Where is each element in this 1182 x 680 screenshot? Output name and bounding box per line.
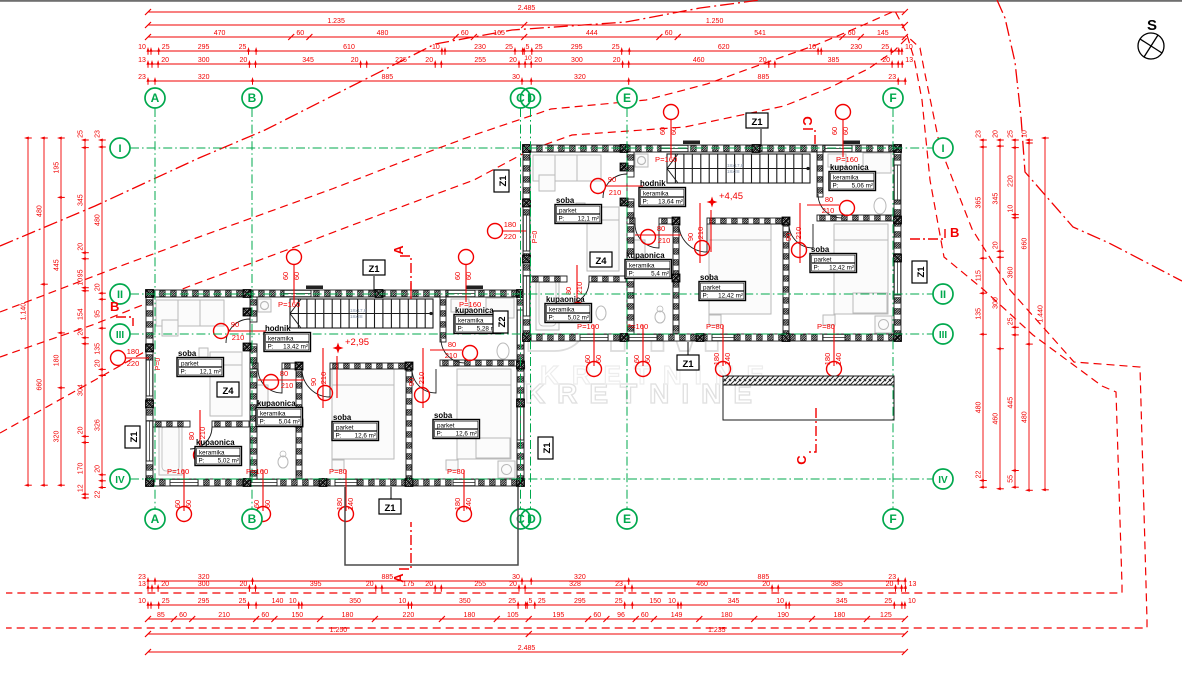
svg-text:Z1: Z1 [916,266,927,278]
svg-text:B: B [248,512,257,526]
svg-text:+4,45: +4,45 [719,191,743,202]
svg-text:95: 95 [78,269,85,277]
svg-text:P:: P: [549,315,555,322]
svg-text:10: 10 [432,44,440,51]
svg-text:5: 5 [525,44,529,51]
lower wing: stairs [290,299,433,328]
svg-text:10: 10 [668,598,676,605]
svg-text:300: 300 [198,57,210,64]
property dash-dot line right [997,0,1182,281]
svg-text:20: 20 [161,581,169,588]
svg-text:90: 90 [686,233,695,241]
svg-text:B: B [110,299,119,314]
upper wing: columns [523,145,531,153]
svg-text:255: 255 [474,581,486,588]
upper wing: door arcs [603,174,627,198]
svg-text:395: 395 [310,581,322,588]
svg-text:5,4 m²: 5,4 m² [651,271,669,278]
svg-text:18x17,8: 18x17,8 [727,163,744,168]
svg-text:145: 145 [877,30,889,37]
svg-text:140: 140 [834,353,843,366]
svg-text:80: 80 [187,432,196,440]
svg-text:885: 885 [758,574,770,581]
svg-text:210: 210 [609,188,622,197]
svg-text:2.485: 2.485 [518,5,536,12]
svg-text:Z1: Z1 [542,442,553,454]
svg-text:105: 105 [507,612,519,619]
svg-text:13: 13 [909,581,917,588]
svg-text:295: 295 [571,44,583,51]
svg-text:460: 460 [696,581,708,588]
svg-text:20: 20 [886,581,894,588]
svg-text:230: 230 [474,44,486,51]
svg-text:460: 460 [693,57,705,64]
svg-text:P=80: P=80 [447,467,465,476]
Z4 label lower wing [217,382,239,397]
svg-text:320: 320 [574,574,586,581]
svg-text:140: 140 [272,598,284,605]
svg-text:12: 12 [78,484,85,492]
top dimension chains [145,5,908,15]
svg-text:135: 135 [976,308,983,320]
Z2 label junction rotated [493,311,508,333]
svg-text:385: 385 [831,581,843,588]
svg-text:25: 25 [538,598,546,605]
svg-text:300: 300 [198,581,210,588]
svg-text:220: 220 [504,232,517,241]
svg-text:300: 300 [571,57,583,64]
svg-text:parket: parket [814,256,832,263]
svg-text:480: 480 [37,205,44,217]
svg-text:soba: soba [556,196,575,205]
svg-text:P:: P: [833,183,839,190]
svg-text:25: 25 [78,130,85,138]
svg-text:P=160: P=160 [655,155,677,164]
svg-text:30: 30 [512,574,520,581]
svg-text:445: 445 [1008,397,1015,409]
svg-text:328: 328 [569,581,581,588]
svg-text:II: II [940,289,946,301]
grid bubbles bottom [145,509,165,529]
svg-text:P:: P: [703,293,709,300]
svg-text:10: 10 [1008,205,1015,213]
svg-text:320: 320 [54,431,61,443]
svg-text:885: 885 [758,74,770,81]
svg-text:13: 13 [138,581,146,588]
svg-text:25: 25 [615,598,623,605]
svg-text:25: 25 [239,44,247,51]
svg-text:345: 345 [836,598,848,605]
svg-text:kupaonica: kupaonica [830,163,869,172]
svg-text:150: 150 [291,612,303,619]
svg-text:20: 20 [509,57,517,64]
svg-text:60: 60 [263,500,272,508]
svg-text:480: 480 [377,30,389,37]
svg-text:210: 210 [658,236,671,245]
svg-text:25: 25 [239,598,247,605]
svg-text:P:: P: [268,344,274,351]
svg-text:60: 60 [296,30,304,37]
svg-text:P:: P: [814,265,820,272]
watermark [522,266,738,372]
svg-text:610: 610 [343,44,355,51]
svg-text:295: 295 [198,44,210,51]
svg-text:13,42 m²: 13,42 m² [283,344,308,351]
svg-text:12,1 m²: 12,1 m² [578,216,599,223]
svg-text:5: 5 [529,598,533,605]
svg-text:20: 20 [613,57,621,64]
svg-text:1.140: 1.140 [21,303,28,321]
svg-text:Z2: Z2 [497,316,508,327]
svg-text:parket: parket [437,422,455,429]
svg-text:1.250: 1.250 [330,627,348,634]
svg-text:P=160: P=160 [626,322,648,331]
svg-text:80: 80 [825,195,833,204]
Z1 label lower wing top [363,260,385,275]
upper wing: furniture [533,155,601,181]
upper wing: windows [661,145,688,152]
svg-text:96: 96 [617,612,625,619]
svg-text:195: 195 [54,162,61,174]
svg-text:10: 10 [905,44,913,51]
svg-text:A: A [391,573,406,583]
svg-text:5,02 m²: 5,02 m² [568,315,589,322]
svg-text:P:: P: [437,431,443,438]
svg-text:190: 190 [777,612,789,619]
svg-text:326: 326 [95,419,102,431]
svg-text:25: 25 [612,44,620,51]
svg-text:60: 60 [583,355,592,363]
lower wing [111,250,525,522]
svg-text:210: 210 [281,381,294,390]
svg-text:25: 25 [162,598,170,605]
room labels upper wing [555,196,602,224]
svg-text:10: 10 [138,44,146,51]
svg-text:parket: parket [181,360,199,367]
svg-text:210: 210 [822,206,835,215]
svg-text:10: 10 [908,598,916,605]
svg-text:parket: parket [559,207,577,214]
svg-text:10: 10 [138,598,146,605]
svg-text:18x17,8: 18x17,8 [350,308,367,313]
svg-text:180: 180 [504,220,517,229]
svg-text:60: 60 [593,612,601,619]
svg-text:60: 60 [632,355,641,363]
lower wing: windows [284,290,311,297]
svg-text:parket: parket [703,284,721,291]
upper wing [488,105,902,377]
svg-text:20: 20 [240,581,248,588]
svg-text:165: 165 [493,30,505,37]
svg-text:10: 10 [78,278,85,286]
svg-text:20: 20 [95,465,102,473]
upper wing: red door/window annotations [591,179,606,194]
svg-text:444: 444 [586,30,598,37]
svg-text:keramika: keramika [458,317,484,324]
lower wing: lintels [306,286,323,290]
svg-text:III: III [939,330,948,341]
svg-text:180: 180 [712,353,721,366]
svg-text:125: 125 [880,612,892,619]
grid bubbles right [933,138,953,158]
svg-text:keramika: keramika [260,410,286,417]
canopy outline below junction [345,487,518,565]
svg-text:60: 60 [848,30,856,37]
svg-text:C: C [800,116,815,126]
svg-text:I: I [941,143,944,155]
svg-text:F: F [889,91,896,105]
svg-text:20: 20 [95,283,102,291]
svg-text:210: 210 [575,282,584,295]
svg-text:soba: soba [700,273,719,282]
svg-text:E: E [623,512,631,526]
svg-text:20: 20 [95,359,102,367]
svg-text:25: 25 [1008,317,1015,325]
svg-text:P=0: P=0 [155,358,162,371]
svg-text:A: A [391,245,406,255]
svg-text:kupaonica: kupaonica [196,438,235,447]
svg-text:345: 345 [728,598,740,605]
svg-text:220: 220 [127,359,140,368]
svg-text:115: 115 [976,270,983,281]
svg-text:Z1: Z1 [498,175,509,187]
svg-text:P=160: P=160 [577,322,599,331]
lower wing: interior walls [250,297,257,322]
svg-text:480: 480 [95,214,102,226]
svg-text:keramika: keramika [629,262,655,269]
svg-text:60: 60 [179,612,187,619]
terrain dashed line T3 [0,351,146,433]
svg-text:320: 320 [198,74,210,81]
svg-text:kupaonica: kupaonica [455,306,494,315]
svg-text:25: 25 [535,44,543,51]
svg-text:140: 140 [346,498,355,511]
svg-text:parket: parket [336,424,354,431]
svg-text:5,02 m²: 5,02 m² [218,458,239,465]
svg-text:D: D [527,512,536,526]
lower wing: outer walls [146,290,524,297]
svg-text:20: 20 [78,426,85,434]
svg-text:180: 180 [823,353,832,366]
elevation marker upper wing [707,197,718,208]
svg-text:5,04 m²: 5,04 m² [279,419,300,426]
lower wing: furniture [156,300,224,326]
svg-text:90: 90 [231,320,239,329]
svg-text:60: 60 [658,127,667,135]
lower wing: door arcs [226,319,250,343]
upper wing: lintels [683,141,700,145]
svg-text:S: S [1147,17,1157,34]
svg-text:20: 20 [534,57,542,64]
svg-text:230: 230 [850,44,862,51]
svg-text:B: B [248,91,257,105]
svg-text:P=80: P=80 [706,322,724,331]
bottom dimension chains [138,574,907,585]
svg-text:255: 255 [474,57,486,64]
upper wing: outer walls [523,145,901,152]
svg-text:25: 25 [881,44,889,51]
svg-text:F: F [889,512,896,526]
svg-text:220: 220 [403,612,415,619]
svg-text:345: 345 [993,193,1000,205]
right dimension chains [976,130,987,489]
svg-text:30: 30 [512,74,520,81]
svg-text:1.250: 1.250 [706,18,724,25]
svg-text:23: 23 [138,574,146,581]
svg-text:+2,95: +2,95 [345,337,369,348]
svg-text:80: 80 [657,224,665,233]
svg-text:III: III [116,330,125,341]
svg-text:keramika: keramika [268,335,294,342]
svg-text:180: 180 [342,612,354,619]
svg-text:885: 885 [381,74,393,81]
svg-text:Z4: Z4 [222,386,234,397]
lower wing: floor background [146,290,524,486]
svg-text:295: 295 [198,598,210,605]
svg-text:60: 60 [261,612,269,619]
svg-text:225: 225 [395,57,407,64]
Z1 label junction rotated [538,437,553,459]
svg-text:180: 180 [127,347,140,356]
svg-text:12,42 m²: 12,42 m² [718,293,743,300]
svg-text:10: 10 [1022,130,1029,138]
svg-text:10: 10 [399,598,407,605]
svg-text:keramika: keramika [833,174,859,181]
svg-text:soba: soba [811,245,830,254]
svg-text:85: 85 [157,612,165,619]
svg-text:18x28: 18x28 [727,169,740,174]
svg-text:304: 304 [78,384,85,396]
svg-text:20: 20 [425,57,433,64]
svg-text:A: A [151,512,160,526]
svg-text:620: 620 [718,44,730,51]
svg-text:80: 80 [448,340,456,349]
svg-text:210: 210 [218,612,230,619]
svg-text:2.485: 2.485 [518,645,536,652]
svg-text:20: 20 [882,57,890,64]
svg-text:P=0: P=0 [532,231,539,244]
svg-text:295: 295 [574,598,586,605]
svg-text:20: 20 [351,57,359,64]
svg-text:D: D [527,91,536,105]
svg-text:hodnik: hodnik [640,179,666,188]
svg-text:13,64 m²: 13,64 m² [658,199,683,206]
svg-text:60: 60 [292,272,301,280]
svg-text:A: A [151,91,160,105]
upper wing: interior walls [627,152,634,177]
svg-text:P=160: P=160 [246,467,268,476]
svg-text:480: 480 [1022,411,1029,423]
svg-text:22: 22 [976,471,983,479]
svg-text:60: 60 [841,127,850,135]
svg-text:P:: P: [260,419,266,426]
svg-text:5,06 m²: 5,06 m² [852,183,873,190]
svg-text:12,42 m²: 12,42 m² [829,265,854,272]
svg-text:12,1 m²: 12,1 m² [200,369,221,376]
svg-text:12,6 m²: 12,6 m² [355,433,376,440]
svg-text:20: 20 [78,243,85,251]
svg-text:90: 90 [784,233,793,241]
Z1 label left rotated [125,426,140,448]
svg-text:25: 25 [508,598,516,605]
svg-text:60: 60 [461,30,469,37]
svg-text:P:: P: [559,216,565,223]
green grid vertical lines [154,108,156,509]
svg-text:60: 60 [453,272,462,280]
terrace hatched strip [723,376,894,385]
svg-text:10: 10 [289,598,297,605]
svg-text:80: 80 [280,369,288,378]
svg-text:95: 95 [95,310,102,318]
svg-text:IV: IV [938,475,948,486]
property dash-dot line left [0,0,760,246]
upper wing: stairs [667,154,810,183]
svg-text:20: 20 [759,57,767,64]
svg-text:150: 150 [649,598,661,605]
svg-text:180: 180 [453,498,462,511]
svg-text:C: C [794,455,809,465]
svg-text:23: 23 [888,74,896,81]
svg-text:60: 60 [669,127,678,135]
svg-text:135: 135 [95,343,102,355]
svg-text:Z1: Z1 [384,503,396,514]
svg-text:P=80: P=80 [329,467,347,476]
svg-text:365: 365 [976,197,983,209]
svg-text:20: 20 [240,57,248,64]
svg-text:180: 180 [721,612,733,619]
svg-text:Z1: Z1 [368,264,380,275]
svg-text:10: 10 [808,44,816,51]
Z1 label mid-left rotated [494,170,509,192]
svg-text:20: 20 [366,581,374,588]
svg-text:60: 60 [665,30,673,37]
svg-text:23: 23 [888,574,896,581]
svg-text:E: E [623,91,631,105]
svg-text:soba: soba [434,411,453,420]
svg-text:170: 170 [78,462,85,474]
left dimension chains [21,137,32,487]
svg-text:kupaonica: kupaonica [257,399,296,408]
svg-text:kupaonica: kupaonica [546,295,585,304]
svg-text:210: 210 [794,227,803,240]
svg-text:350: 350 [459,598,471,605]
svg-text:P:: P: [458,326,464,333]
elevation marker lower wing [333,343,344,354]
svg-text:P:: P: [643,199,649,206]
svg-text:20: 20 [993,130,1000,138]
svg-text:23: 23 [95,130,102,138]
svg-text:180: 180 [335,498,344,511]
svg-text:660: 660 [1022,238,1029,250]
svg-text:Z1: Z1 [751,117,763,128]
svg-text:13: 13 [138,57,146,64]
svg-text:hodnik: hodnik [265,324,291,333]
svg-text:25: 25 [884,598,892,605]
svg-text:I: I [118,143,121,155]
svg-text:210: 210 [445,351,458,360]
svg-text:20: 20 [509,581,517,588]
svg-text:60: 60 [830,127,839,135]
svg-text:480: 480 [976,401,983,413]
svg-text:210: 210 [417,372,426,385]
svg-text:60: 60 [641,612,649,619]
svg-text:12,6 m²: 12,6 m² [456,431,477,438]
svg-text:20: 20 [78,328,85,336]
grid bubbles top [145,88,165,108]
svg-text:320: 320 [198,574,210,581]
svg-text:Z1: Z1 [682,359,694,370]
svg-text:1.440: 1.440 [1038,305,1045,323]
